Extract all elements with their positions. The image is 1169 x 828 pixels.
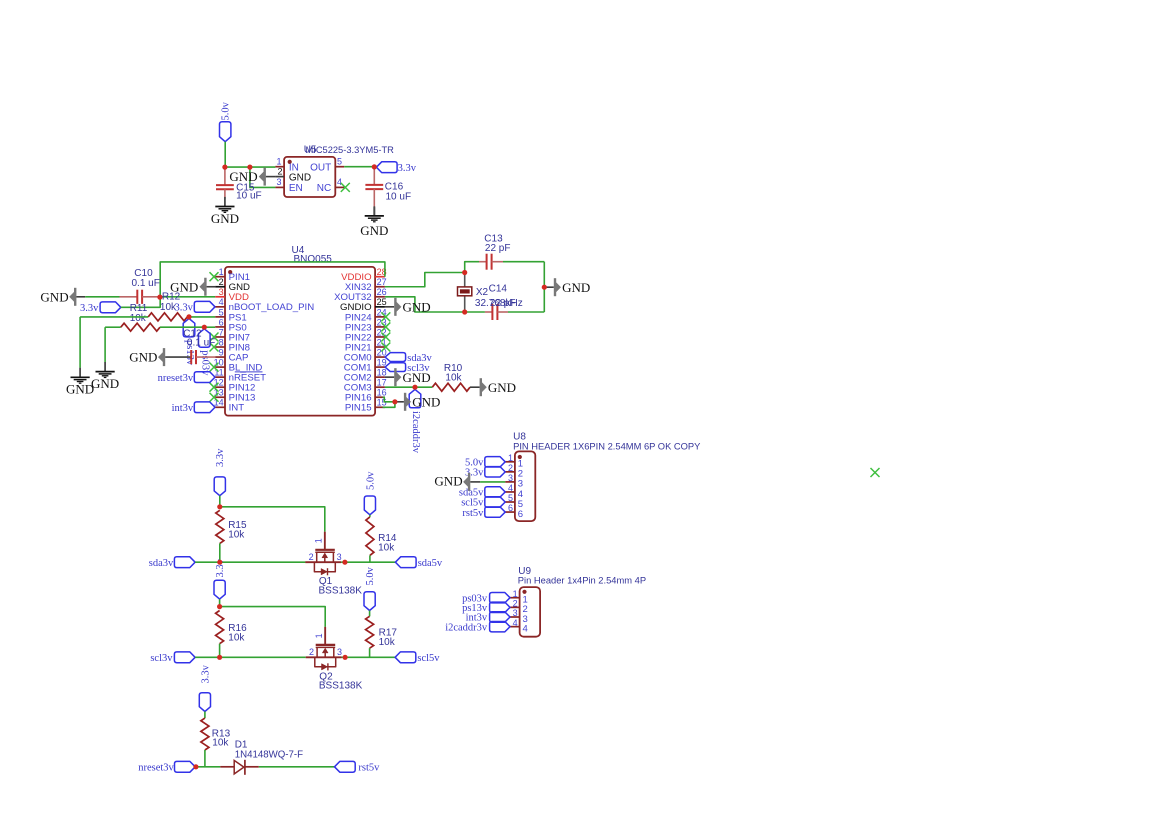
svg-text:4: 4 — [513, 618, 518, 628]
svg-text:5.0v: 5.0v — [220, 101, 231, 120]
junction dot (345.1,657.3) — [343, 655, 348, 660]
svg-text:9: 9 — [219, 347, 224, 357]
svg-text:GND: GND — [91, 376, 119, 391]
pin 2 U8 — [505, 471, 515, 473]
svg-text:2: 2 — [309, 552, 314, 562]
resistor R16 10k — [216, 611, 224, 644]
svg-text:5.0v: 5.0v — [365, 471, 376, 490]
crystal X2 32.768kHz — [464, 273, 466, 287]
svg-text:22 pF: 22 pF — [490, 298, 516, 309]
svg-text:1: 1 — [513, 589, 518, 599]
pin 22 PIN22 — [375, 336, 385, 338]
wire OUT to 3.3v — [344, 166, 376, 168]
pin 3 U9 — [510, 616, 520, 618]
resistor R14 10k — [366, 517, 374, 556]
svg-text:PIN15: PIN15 — [345, 403, 372, 414]
svg-text:scl3v: scl3v — [150, 653, 173, 664]
svg-text:GND: GND — [434, 474, 462, 489]
net label 3.3v (VDD) — [100, 302, 121, 313]
svg-text:3: 3 — [219, 287, 224, 297]
wire gate branch Q1 — [220, 507, 325, 532]
pin 2 GND — [215, 286, 225, 288]
pin 6 U8 — [505, 511, 515, 513]
svg-text:PIN HEADER 1X6PIN 2.54MM 6P OK: PIN HEADER 1X6PIN 2.54MM 6P OK COPY — [513, 441, 701, 451]
svg-text:26: 26 — [377, 287, 387, 297]
junction dot (394.9,401.8) — [392, 399, 397, 404]
ground GND after R10 — [480, 378, 482, 396]
power flag 5.0v (R14) — [364, 496, 375, 515]
wire sda3v line — [195, 561, 305, 563]
svg-text:3: 3 — [337, 647, 342, 657]
net label 3.3v (U8 pin 2) — [485, 467, 505, 477]
power flag 3.3v (R15) — [214, 477, 225, 496]
junction dot (219.8,506.8) — [217, 504, 222, 509]
pin 1 IN — [275, 166, 284, 168]
svg-text:0.1 uF: 0.1 uF — [132, 278, 160, 289]
svg-text:int3v: int3v — [172, 403, 194, 414]
svg-text:19: 19 — [377, 358, 387, 368]
pin 20 COM0 — [375, 356, 385, 358]
wire EN branch — [250, 167, 276, 187]
svg-text:6: 6 — [518, 509, 523, 520]
ground GND at regulator pin 2 — [264, 168, 266, 186]
svg-text:1: 1 — [508, 453, 513, 463]
svg-text:4: 4 — [219, 297, 224, 307]
svg-text:3.3v: 3.3v — [215, 448, 226, 467]
pin 14 INT — [215, 406, 225, 408]
svg-text:i2caddr3v: i2caddr3v — [445, 622, 488, 633]
junction dot (415.0,387.195) — [412, 385, 417, 390]
svg-text:1: 1 — [276, 156, 281, 166]
svg-text:2: 2 — [277, 166, 282, 176]
svg-text:GND: GND — [40, 290, 68, 305]
op-amp U4 BNO055 IC body — [225, 267, 375, 416]
svg-text:2: 2 — [309, 647, 314, 657]
junction dot (219.8,562.2) — [217, 560, 222, 565]
svg-text:GND: GND — [360, 223, 388, 238]
no-connect X pins 1,7,8,10,12,13 — [210, 272, 219, 281]
svg-text:EN: EN — [289, 183, 303, 194]
resistor R13 10k — [201, 718, 209, 750]
svg-text:4: 4 — [508, 483, 513, 493]
svg-text:rst5v: rst5v — [358, 763, 380, 774]
capacitor C16 — [373, 167, 375, 185]
wire XOUT32 to crystal — [385, 297, 465, 312]
wire R10 to ground — [470, 386, 480, 388]
wire PS0 pulldown to ground — [104, 327, 106, 362]
svg-text:3.3v: 3.3v — [80, 303, 99, 314]
net label sda3v (shifter) — [174, 557, 195, 568]
svg-text:3: 3 — [508, 473, 513, 483]
net label rst5v (U8 pin 6) — [485, 507, 505, 517]
svg-text:C14: C14 — [489, 283, 508, 294]
junction dot (219.6,606.6) — [217, 604, 222, 609]
net label sda3v (COM0) — [385, 353, 406, 362]
wire 3.3v to VDD node — [121, 297, 160, 307]
svg-text:GND: GND — [488, 380, 516, 395]
junction dot (219.6,657.3) — [217, 655, 222, 660]
svg-text:10k: 10k — [212, 738, 229, 749]
ground GND at COM2 — [385, 376, 394, 378]
svg-text:2: 2 — [513, 598, 518, 608]
no-connect X mark (floating) — [871, 468, 880, 477]
pin 4 nBOOT_LOAD_PIN — [215, 306, 225, 308]
svg-text:INT: INT — [229, 403, 245, 414]
transistor Q1 — [324, 532, 326, 550]
wire D1 to rst5v — [259, 766, 335, 768]
net label int3v (pin 14) — [194, 402, 215, 413]
svg-text:1N4148WQ-7-F: 1N4148WQ-7-F — [235, 749, 303, 760]
svg-text:GND: GND — [562, 280, 590, 295]
pin 19 COM1 — [375, 366, 385, 368]
wire crystal gnd vertical — [543, 262, 545, 312]
svg-text:5: 5 — [337, 156, 342, 166]
diode D1 1N4148WQ-7-F — [220, 766, 234, 768]
svg-text:5: 5 — [219, 307, 224, 317]
net label ps13v (U9 pin 2) — [490, 602, 510, 612]
junction dot (224.9,167.1) — [222, 165, 227, 170]
ground GND at GNDIO pin 25 — [385, 306, 394, 308]
wire sda5v line — [341, 561, 395, 563]
junction dot (249.9,167.1) — [247, 165, 252, 170]
pin 1 U8 — [505, 461, 515, 463]
pin 16 PIN16 — [375, 396, 385, 398]
pin 23 PIN23 — [375, 326, 385, 328]
svg-text:3.3v: 3.3v — [465, 468, 484, 479]
junction dot (374.3,166.9) — [372, 164, 377, 169]
pin 3 EN — [275, 186, 284, 188]
svg-text:3: 3 — [513, 608, 518, 618]
svg-text:2: 2 — [219, 277, 224, 287]
power flag 5.0v (top) — [220, 122, 231, 142]
net label 5.0v (U8 pin 1) — [485, 457, 505, 467]
op-amp U5 MIC5225-3.3YM5-TR regulator — [284, 157, 335, 197]
svg-text:6: 6 — [219, 317, 224, 327]
net label i2caddr3v (U9 pin 4) — [490, 621, 510, 631]
junction dot (344.9,562.2) — [342, 560, 347, 565]
wire VDD rail over top of U4 to VDDIO — [160, 262, 385, 297]
pin 2 U9 — [510, 606, 520, 608]
svg-text:10k: 10k — [130, 313, 147, 324]
net label sda5v (U8 pin 4) — [485, 487, 505, 497]
ground GND (left earth) — [79, 368, 81, 378]
power flag 3.3v (R13) — [199, 693, 210, 712]
pin 2 GND — [275, 176, 284, 178]
svg-text:10k: 10k — [379, 637, 396, 648]
capacitor C14 22pF — [485, 311, 493, 313]
resistor R15 10k — [216, 510, 224, 543]
svg-text:NC: NC — [317, 183, 331, 194]
svg-text:5: 5 — [508, 493, 513, 503]
wire XIN32 to crystal — [385, 273, 465, 287]
svg-text:GND: GND — [129, 350, 157, 365]
pin 15 PIN15 — [375, 406, 385, 408]
svg-text:rst5v: rst5v — [462, 508, 484, 519]
svg-text:1: 1 — [314, 538, 324, 543]
svg-text:10 uF: 10 uF — [236, 191, 262, 202]
wire crystal top rail — [465, 262, 479, 273]
pin 1 PIN1 — [215, 276, 225, 278]
svg-text:1: 1 — [314, 633, 324, 638]
ground GND at pin 2 — [204, 278, 206, 296]
svg-text:GND: GND — [229, 169, 257, 184]
net label sda5v — [395, 557, 416, 568]
net label ps13v — [183, 319, 195, 337]
svg-text:15: 15 — [377, 398, 387, 408]
pin 26 XOUT32 — [375, 296, 385, 298]
pin 5 U8 — [505, 501, 515, 503]
transistor Q1 BSS138K — [324, 532, 326, 550]
svg-text:GND: GND — [66, 382, 94, 397]
net label nreset3v (pin 11) — [194, 372, 215, 383]
pin 7 PIN7 — [215, 336, 225, 338]
junction dot (204.3,327.2) — [202, 325, 207, 330]
svg-text:17: 17 — [377, 378, 387, 388]
wire PS1 left — [80, 316, 148, 318]
svg-text:20: 20 — [377, 347, 387, 357]
wire GND to C10 — [76, 296, 85, 298]
net label 3.3v (nBOOT_LOAD_PIN) — [194, 301, 215, 312]
svg-text:3.3v: 3.3v — [200, 664, 211, 683]
power flag 5.0v (R17) — [364, 592, 375, 611]
svg-text:BSS138K: BSS138K — [319, 681, 363, 692]
pin 10 BL_IND — [215, 366, 225, 368]
wire VIN horizontal — [225, 166, 276, 168]
pin 3 U8 — [505, 481, 515, 483]
svg-text:GND: GND — [211, 211, 239, 226]
pin 9 CAP — [215, 356, 225, 358]
svg-text:MIC5225-3.3YM5-TR: MIC5225-3.3YM5-TR — [306, 145, 395, 155]
svg-text:27: 27 — [377, 277, 387, 287]
capacitor C13 22pF — [479, 261, 487, 263]
net label scl3v (shifter) — [174, 652, 195, 663]
svg-text:3: 3 — [337, 552, 342, 562]
svg-text:6: 6 — [508, 503, 513, 513]
svg-text:scl5v: scl5v — [417, 653, 440, 664]
svg-text:BNO055: BNO055 — [294, 254, 333, 265]
pin 3 VDD — [215, 296, 225, 298]
net label ps03v (U9 pin 1) — [490, 593, 510, 603]
wire PS0 to pin 6 — [204, 326, 215, 328]
wire scl5v line — [342, 656, 396, 658]
power flag 3.3v (R16) — [214, 580, 225, 599]
no-connect X pins 24,23,22,21 — [381, 312, 390, 321]
svg-text:16: 16 — [377, 388, 387, 398]
pin 5 OUT — [335, 166, 344, 168]
svg-text:4: 4 — [337, 177, 342, 187]
svg-text:7: 7 — [219, 327, 224, 337]
svg-text:Pin Header 1x4Pin 2.54mm 4P: Pin Header 1x4Pin 2.54mm 4P — [518, 575, 646, 585]
svg-text:10k: 10k — [445, 373, 462, 384]
net label scl3v (COM1) — [385, 363, 406, 372]
svg-text:nreset3v: nreset3v — [138, 763, 174, 774]
pin 13 PIN13 — [215, 396, 225, 398]
wire nreset3v to D1 — [196, 766, 220, 768]
net label scl5v (U8 pin 5) — [485, 497, 505, 507]
net label nreset3v (bottom) — [175, 761, 196, 772]
pin 24 PIN24 — [375, 316, 385, 318]
wire gate branch Q2 — [220, 607, 326, 627]
junction dot (464.7,312.0) — [462, 309, 467, 314]
junction dot (189.0,316.9) — [186, 314, 191, 319]
pin 12 PIN12 — [215, 386, 225, 388]
net label i2caddr3v (COM3) — [409, 389, 421, 407]
junction dot (195.9,766.8) — [193, 764, 198, 769]
svg-text:10k: 10k — [228, 632, 245, 643]
capacitor C10 0.1uF — [136, 290, 138, 304]
ground GND below C15 — [224, 197, 226, 207]
pin 4 U8 — [505, 491, 515, 493]
svg-text:3.3v: 3.3v — [398, 163, 417, 174]
resistor R10 10k — [432, 383, 470, 391]
transistor Q2 — [324, 627, 326, 645]
svg-text:10 uF: 10 uF — [386, 191, 412, 202]
svg-text:10k: 10k — [378, 542, 395, 553]
pin 11 nRESET — [215, 376, 225, 378]
junction dot (464.7,272.5) — [462, 270, 467, 275]
svg-text:8: 8 — [219, 337, 224, 347]
pin 4 U9 — [510, 626, 520, 628]
svg-text:25: 25 — [377, 297, 387, 307]
wire scl3v line — [195, 656, 306, 658]
svg-text:22 pF: 22 pF — [485, 243, 511, 254]
pin 21 PIN21 — [375, 346, 385, 348]
net label int3v (U9 pin 3) — [490, 612, 510, 622]
wire PIN16 to gnd node — [383, 397, 395, 402]
svg-text:0.1 uF: 0.1 uF — [187, 337, 215, 348]
svg-text:10k: 10k — [228, 529, 245, 540]
svg-text:1: 1 — [219, 267, 224, 277]
pin 8 PIN8 — [215, 346, 225, 348]
pin 6 PS0 — [215, 326, 225, 328]
svg-text:18: 18 — [377, 368, 387, 378]
svg-text:sda5v: sda5v — [418, 558, 443, 569]
wire crystal bottom rail — [465, 311, 485, 313]
pin 27 XIN32 — [375, 286, 385, 288]
wire PS1 pulldown to ground — [79, 317, 81, 368]
ground GND (second earth) — [104, 362, 106, 372]
resistor R12 body (PS0) — [105, 326, 121, 328]
svg-text:sda3v: sda3v — [149, 558, 174, 569]
svg-text:5.0v: 5.0v — [365, 566, 376, 585]
pin 28 VDDIO — [375, 276, 385, 278]
ground GND at PIN15/16 — [395, 401, 404, 403]
svg-text:GND: GND — [170, 279, 198, 294]
ground GND below C16 — [373, 207, 375, 215]
svg-text:4: 4 — [523, 623, 528, 634]
svg-text:GND: GND — [403, 299, 431, 314]
wire PS1 to pin 5 — [189, 316, 215, 318]
pin 17 COM3 — [375, 386, 385, 388]
no-connect X on NC — [341, 183, 350, 192]
svg-text:i2caddr3v: i2caddr3v — [410, 411, 421, 454]
junction dot (544.3,287.2) — [542, 285, 547, 290]
ground GND at crystal — [544, 286, 554, 288]
wire junction to VDD pin 3 — [160, 296, 215, 298]
svg-text:2: 2 — [508, 463, 513, 473]
capacitor C15 — [224, 167, 226, 185]
svg-text:X2: X2 — [476, 287, 489, 298]
transistor Q2 BSS138K — [324, 627, 326, 645]
pin 5 PS1 — [215, 316, 225, 318]
wire COM3 to R10 — [385, 386, 432, 388]
pin 25 GNDIO — [375, 306, 385, 308]
net label ps03v — [199, 329, 211, 347]
net label rst5v — [335, 761, 356, 772]
pin 4 NC — [335, 186, 344, 188]
svg-text:GND: GND — [412, 394, 440, 409]
net label 3.3v (regulator output) — [376, 162, 397, 173]
resistor R17 10k — [366, 616, 374, 648]
svg-text:GND: GND — [403, 370, 431, 385]
svg-text:GND: GND — [289, 172, 311, 183]
wire 5.0v down — [224, 142, 226, 167]
svg-text:BSS138K: BSS138K — [319, 585, 363, 596]
wire PIN15 to gnd node — [383, 402, 395, 407]
junction dot (159.9,297.1) — [157, 295, 162, 300]
pin 18 COM2 — [375, 376, 385, 378]
svg-text:3: 3 — [276, 177, 281, 187]
svg-text:OUT: OUT — [310, 162, 331, 173]
svg-text:nreset3v: nreset3v — [158, 373, 194, 384]
pin 1 U9 — [510, 597, 520, 599]
net label scl5v — [395, 652, 416, 663]
